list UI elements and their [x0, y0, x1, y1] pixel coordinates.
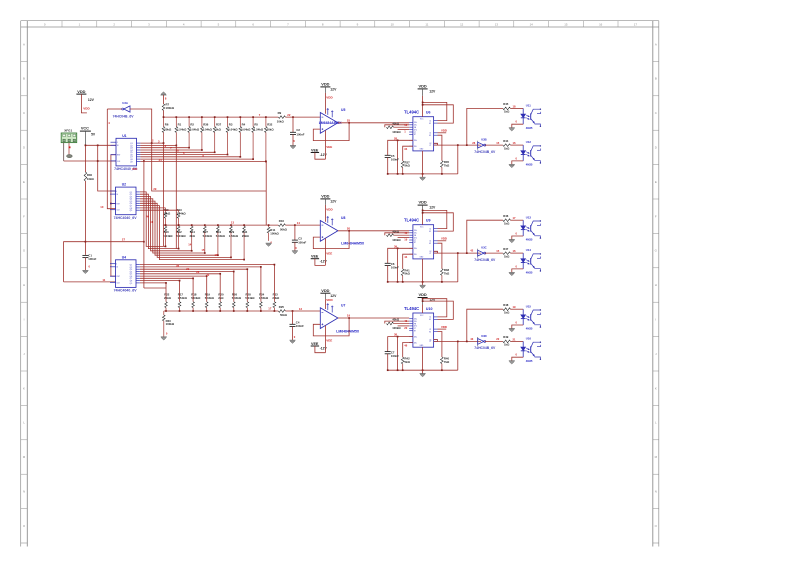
- resistor R37 2kΩ: [213, 117, 221, 152]
- wire long link R6 column: [163, 143, 165, 246]
- svg-text:4N35: 4N35: [526, 126, 533, 130]
- wire VDD stem: [81, 94, 87, 113]
- svg-text:RT: RT: [414, 331, 416, 333]
- svg-text:40: 40: [146, 215, 149, 219]
- wire U4 Q7 to ladder: [140, 278, 193, 301]
- svg-text:RST: RST: [117, 204, 120, 206]
- svg-text:25: 25: [347, 118, 351, 122]
- svg-text:R49: R49: [503, 335, 509, 339]
- ground under R23: [161, 336, 167, 338]
- wire long link column (net 27 riser): [143, 161, 145, 288]
- wire output to rail loop: [457, 145, 459, 174]
- svg-text:E1: E1: [429, 231, 431, 233]
- svg-text:46: 46: [404, 343, 407, 347]
- svg-text:5kΩ: 5kΩ: [405, 164, 411, 168]
- svg-text:28: 28: [394, 136, 397, 140]
- wire bottom rail: [388, 173, 458, 175]
- svg-text:10: 10: [100, 205, 104, 209]
- resistor R47 1k: [503, 247, 511, 258]
- wire LED cathode to ground: [512, 357, 523, 361]
- svg-text:1IN+: 1IN+: [414, 122, 417, 124]
- sheet border frame: [21, 21, 659, 547]
- wire output pins tie: [434, 143, 438, 145]
- op-amp U7 LM6484: [320, 303, 345, 328]
- svg-text:10kΩ: 10kΩ: [277, 119, 285, 123]
- svg-text:VDD: VDD: [83, 106, 90, 110]
- svg-text:D: D: [23, 146, 25, 150]
- svg-text:11: 11: [102, 278, 105, 282]
- capacitor C7 100nF timing: [385, 351, 391, 353]
- svg-text:2IN+: 2IN+: [414, 248, 417, 250]
- svg-text:7kΩ: 7kΩ: [444, 360, 450, 364]
- ground symbol: [420, 373, 426, 375]
- inverter U3B 74HC04: [474, 138, 496, 154]
- ground for U16 LED: [509, 360, 515, 362]
- svg-text:18: 18: [513, 104, 516, 108]
- resistor R37 5k timing: [401, 161, 404, 168]
- svg-text:K: K: [655, 386, 657, 390]
- op-amp U5 LM6484: [320, 108, 345, 133]
- svg-text:VDD: VDD: [321, 194, 329, 199]
- svg-text:U3B: U3B: [481, 138, 487, 142]
- svg-text:TL494C: TL494C: [404, 306, 419, 311]
- svg-text:U1: U1: [122, 134, 126, 138]
- svg-text:74HC04B_6V: 74HC04B_6V: [474, 258, 496, 262]
- wire U4 Q9 to ladder: [140, 283, 166, 301]
- svg-text:RST: RST: [117, 155, 120, 157]
- wire RT pin: [403, 343, 413, 358]
- svg-text:10kΩ: 10kΩ: [87, 177, 95, 181]
- svg-text:XFG1: XFG1: [64, 129, 72, 133]
- wire link down to row2 (net 29): [152, 143, 267, 191]
- svg-text:5.04kΩ: 5.04kΩ: [163, 234, 173, 238]
- svg-text:100kΩ: 100kΩ: [392, 130, 401, 134]
- ground under C4: [290, 339, 296, 341]
- LED of optocoupler U15: [521, 309, 526, 325]
- svg-text:N: N: [655, 490, 657, 494]
- svg-text:R5: R5: [254, 123, 258, 127]
- resistor R33 20kΩ (row 3): [272, 292, 280, 311]
- resistor R10 5.04kΩ: [163, 225, 173, 246]
- wire net 27 cross link: [64, 242, 86, 282]
- wire U1 Q3 to ladder: [140, 147, 189, 149]
- svg-text:VDD: VDD: [321, 82, 329, 87]
- svg-text:100nF: 100nF: [88, 257, 96, 261]
- svg-text:VDD: VDD: [418, 200, 426, 205]
- svg-text:B: B: [23, 77, 25, 81]
- svg-text:5.04kΩ: 5.04kΩ: [216, 234, 226, 238]
- wire U4 Q5 to ladder: [140, 274, 220, 301]
- svg-text:N: N: [23, 490, 25, 494]
- resistor R31 5.04kΩ: [216, 225, 226, 255]
- svg-text:4: 4: [116, 264, 117, 266]
- resistor 40k feedback: [387, 234, 394, 237]
- svg-text:2IN-: 2IN-: [414, 146, 417, 148]
- wire VDD stem: [324, 199, 326, 205]
- wire U1 Q1 to ladder: [140, 142, 163, 144]
- svg-text:VDD: VDD: [418, 292, 426, 297]
- svg-text:LM6484AIM5X: LM6484AIM5X: [341, 241, 365, 245]
- wire DAC bus row 3 (net 17): [164, 310, 279, 312]
- svg-text:17: 17: [634, 22, 638, 26]
- svg-text:1IN-: 1IN-: [414, 233, 417, 235]
- wire VDD to E1 pin loop: [423, 213, 454, 231]
- wire U4 Q8 to ladder: [140, 281, 180, 301]
- svg-text:24: 24: [159, 158, 162, 162]
- wire feedback loop: [313, 318, 349, 336]
- svg-text:U14: U14: [526, 248, 532, 252]
- resistor R22 20kΩ (row 3): [164, 292, 172, 311]
- svg-text:CT: CT: [414, 240, 416, 242]
- wire output net: [438, 340, 481, 342]
- svg-text:27: 27: [122, 238, 126, 242]
- resistor R26 5.04kΩ (row 3): [232, 292, 242, 311]
- resistor R15 20kΩ (row 2 upper): [163, 208, 171, 225]
- svg-text:1kΩ: 1kΩ: [504, 221, 510, 225]
- svg-text:VEE: VEE: [326, 251, 332, 255]
- svg-text:29: 29: [186, 267, 189, 271]
- svg-text:H: H: [655, 283, 657, 287]
- svg-text:U15: U15: [526, 304, 532, 308]
- svg-text:100nF: 100nF: [296, 132, 304, 136]
- wire riser through R32 column to bus2: [265, 161, 267, 225]
- LED of optocoupler U11: [521, 108, 526, 124]
- svg-text:100kΩ: 100kΩ: [166, 106, 175, 110]
- svg-text:74HC4040_6V: 74HC4040_6V: [114, 289, 138, 293]
- wire U2 Q2 to ladder: [140, 194, 179, 248]
- svg-text:U16: U16: [526, 337, 532, 341]
- svg-text:1.54kΩ: 1.54kΩ: [178, 296, 188, 300]
- svg-text:100kΩ: 100kΩ: [392, 326, 401, 330]
- svg-text:E1: E1: [429, 319, 431, 321]
- svg-text:20kΩ: 20kΩ: [242, 234, 250, 238]
- wire CT pin to timing network: [388, 140, 413, 155]
- wire to LED: [510, 252, 523, 254]
- svg-text:20kΩ: 20kΩ: [164, 127, 172, 131]
- svg-text:12V: 12V: [330, 200, 337, 204]
- svg-text:U12: U12: [526, 140, 532, 144]
- svg-text:CT: CT: [414, 328, 416, 330]
- svg-text:1kΩ: 1kΩ: [504, 110, 510, 114]
- svg-text:A: A: [23, 42, 25, 46]
- wire shared reset rail: [111, 155, 116, 277]
- svg-text:22: 22: [496, 337, 499, 341]
- svg-text:7kΩ: 7kΩ: [444, 272, 450, 276]
- svg-text:1.54kΩ: 1.54kΩ: [176, 211, 186, 215]
- svg-text:B: B: [655, 77, 657, 81]
- svg-text:38: 38: [394, 333, 397, 337]
- svg-text:C2: C2: [429, 329, 431, 331]
- wire GND pin to rail: [422, 259, 424, 285]
- LED of optocoupler U13: [521, 220, 526, 236]
- svg-text:R9: R9: [278, 111, 282, 115]
- svg-text:C: C: [655, 111, 657, 115]
- wire feedback loop: [313, 231, 349, 249]
- resistor R12 5.04kΩ: [176, 225, 186, 249]
- svg-text:12V: 12V: [429, 206, 436, 210]
- wire VDD to C1 pin loop: [423, 102, 447, 120]
- svg-text:4: 4: [116, 191, 117, 193]
- wire GND pin to rail: [422, 151, 424, 177]
- wire U2 Q4 to ladder: [140, 199, 205, 253]
- ground under R11: [266, 242, 272, 244]
- resistor R1 1.54kΩ: [175, 117, 187, 145]
- PWM controller U6 TL494C: [404, 110, 438, 151]
- svg-text:VEE: VEE: [311, 149, 319, 153]
- wire U1 Q7 to ladder: [140, 156, 240, 158]
- svg-text:-12V: -12V: [320, 259, 328, 263]
- resistor R32 20kΩ: [265, 117, 275, 161]
- wire U2 Q7 to ladder: [140, 206, 244, 260]
- svg-text:FB: FB: [414, 235, 416, 237]
- wire U1 Q2 to ladder: [140, 144, 176, 146]
- svg-text:R16: R16: [279, 219, 285, 223]
- svg-text:1IN+: 1IN+: [414, 230, 417, 232]
- svg-text:U3A: U3A: [122, 101, 128, 105]
- phototransistor of U13 4N35: [526, 215, 541, 241]
- wire U4 Q6 to ladder: [140, 276, 207, 301]
- wire VDD stem: [422, 298, 424, 305]
- svg-text:16: 16: [117, 145, 119, 147]
- svg-text:44: 44: [404, 255, 407, 259]
- svg-text:15: 15: [564, 22, 568, 26]
- svg-text:2IN+: 2IN+: [414, 140, 417, 142]
- svg-text:FB: FB: [414, 127, 416, 129]
- capacitor C4 100nF: [292, 311, 294, 324]
- wire U1 Q9 to ladder: [140, 160, 266, 162]
- wire U1 Q4 to ladder: [140, 149, 202, 151]
- wire GND pin to rail: [422, 347, 424, 373]
- resistor R19 5.04kΩ (row 3): [205, 292, 215, 311]
- svg-text:VDD: VDD: [132, 167, 138, 171]
- svg-text:4N35: 4N35: [526, 359, 533, 363]
- svg-text:R45: R45: [503, 102, 509, 106]
- svg-text:VEE: VEE: [311, 255, 319, 259]
- svg-text:40kΩ: 40kΩ: [392, 229, 400, 233]
- power VCC 5V symbol: [80, 127, 96, 137]
- wire RT pin: [403, 254, 413, 269]
- wire VDD stem: [324, 293, 326, 299]
- capacitor C6 100nF timing: [385, 262, 391, 264]
- svg-text:100nF: 100nF: [296, 324, 304, 328]
- resistor R13 1.54kΩ (row 2 upper): [176, 208, 186, 225]
- wire LED cathode to ground: [512, 236, 523, 240]
- resistor R35 7k: [438, 135, 442, 161]
- svg-text:Q9: Q9: [130, 283, 133, 285]
- power VDD 12V supply symbol (top left): [76, 89, 94, 111]
- svg-text:1kΩ: 1kΩ: [504, 310, 510, 314]
- wire to U2 reset: [111, 203, 116, 205]
- svg-text:16: 16: [116, 267, 118, 269]
- wire U2 Q1 to ladder: [140, 192, 166, 247]
- wire feedback loop: [313, 123, 349, 141]
- resistor R4 5.04kΩ: [239, 117, 251, 157]
- capacitor C3 100nF: [294, 225, 296, 240]
- wire VCC branch to U2: [98, 145, 116, 191]
- svg-text:E2: E2: [429, 243, 431, 245]
- wire to LED: [510, 107, 523, 109]
- phototransistor of U16 4N35: [526, 337, 541, 363]
- svg-text:E: E: [23, 180, 25, 184]
- svg-text:5kΩ: 5kΩ: [405, 360, 411, 364]
- ground (analog blob) for XFG1: [67, 155, 73, 158]
- wire VDD stem: [324, 87, 326, 93]
- wire U1 Q6 to ladder: [140, 154, 227, 156]
- svg-text:R25: R25: [279, 305, 285, 309]
- svg-text:C2: C2: [429, 133, 431, 135]
- svg-text:VDD: VDD: [326, 95, 333, 99]
- resistor 40k feedback: [387, 322, 394, 325]
- svg-text:15: 15: [201, 248, 204, 252]
- wire bottom rail: [388, 369, 458, 371]
- svg-text:5kΩ: 5kΩ: [405, 272, 411, 276]
- svg-text:H: H: [23, 283, 25, 287]
- inverter U3A 74HC04 (points left): [113, 101, 135, 118]
- svg-text:VDD: VDD: [326, 207, 333, 211]
- counter U2 74HC4040: [110, 183, 140, 215]
- svg-text:U8: U8: [341, 216, 345, 220]
- svg-text:VDD: VDD: [321, 288, 329, 293]
- svg-text:U3C: U3C: [481, 246, 487, 250]
- svg-text:1kΩ: 1kΩ: [504, 254, 510, 258]
- wire DAC bus row 1 (net 7): [164, 116, 279, 118]
- wire U3A output to U2 clock: [107, 109, 116, 209]
- wire feedback resistor network: [385, 321, 409, 323]
- wire U2 Q3 to ladder: [140, 197, 192, 251]
- wire U3A input from U1 Q1 (net 2): [130, 109, 152, 143]
- svg-text:C1: C1: [429, 120, 431, 122]
- svg-text:5.04kΩ: 5.04kΩ: [245, 296, 255, 300]
- svg-text:16: 16: [513, 249, 516, 253]
- wire VEE stem: [324, 130, 326, 159]
- resistor R16 50k series (row 2 output): [278, 219, 287, 231]
- phototransistor of U15 4N35: [526, 304, 541, 330]
- svg-text:29: 29: [153, 187, 156, 191]
- svg-text:5.04kΩ: 5.04kΩ: [241, 127, 251, 131]
- resistor R2 5.04kΩ: [188, 117, 200, 148]
- wire DTC network: [398, 237, 410, 239]
- svg-text:VEE: VEE: [326, 145, 332, 149]
- svg-text:RT: RT: [414, 242, 416, 244]
- svg-text:100nF: 100nF: [391, 266, 399, 270]
- inverter U3C 74HC04: [474, 246, 496, 262]
- capacitor C5 100nF timing: [385, 154, 391, 156]
- svg-text:5.04kΩ: 5.04kΩ: [191, 296, 201, 300]
- wire VDD to C1 pin loop: [423, 299, 447, 317]
- svg-text:R44: R44: [503, 139, 509, 143]
- wire VDD stem: [422, 205, 424, 212]
- resistor R38 7k: [438, 243, 442, 269]
- wire output to rail loop: [457, 341, 459, 370]
- wire inverter to R49: [485, 340, 503, 342]
- svg-text:R32: R32: [267, 123, 273, 127]
- wire DTC network: [398, 129, 410, 131]
- node VDD label right: [438, 240, 447, 242]
- svg-text:4: 4: [117, 142, 118, 144]
- resistor R29 1.54kΩ: [229, 225, 239, 257]
- svg-text:TL494C: TL494C: [404, 110, 419, 115]
- power VDD symbol above U5: [320, 82, 337, 100]
- svg-text:U6: U6: [426, 111, 431, 115]
- wire link at 288: [144, 287, 166, 289]
- svg-text:U10: U10: [426, 307, 433, 311]
- svg-text:VDD: VDD: [326, 298, 333, 302]
- wire VDD to E1 pin loop: [423, 105, 454, 123]
- wire LED cathode to ground: [512, 161, 523, 165]
- wire output to rail loop: [457, 253, 459, 282]
- svg-text:42: 42: [470, 249, 473, 253]
- wire U4 Q1 to ladder: [140, 265, 274, 301]
- resistor R23 100k to ground (row 3): [162, 311, 174, 337]
- svg-text:4N35: 4N35: [526, 163, 533, 167]
- wire output net: [438, 144, 481, 146]
- svg-text:20kΩ: 20kΩ: [164, 296, 172, 300]
- svg-text:17: 17: [268, 307, 272, 311]
- svg-text:15: 15: [496, 249, 499, 253]
- svg-text:R36: R36: [203, 123, 209, 127]
- wire U2 Q6 to ladder: [140, 203, 231, 257]
- power VEE symbol below U8: [311, 251, 333, 263]
- LED of optocoupler U12: [521, 145, 526, 161]
- wire DTC network: [398, 325, 410, 327]
- svg-text:1IN-: 1IN-: [414, 321, 417, 323]
- svg-text:39: 39: [394, 244, 397, 248]
- svg-text:5.04kΩ: 5.04kΩ: [203, 127, 213, 131]
- power VEE symbol below U7: [311, 339, 333, 351]
- wire output net: [438, 252, 481, 254]
- svg-text:VDD: VDD: [441, 129, 447, 133]
- wire op-amp output: [338, 122, 409, 124]
- capacitor C2 100nF: [292, 117, 294, 132]
- wire RT pin: [403, 146, 413, 161]
- svg-text:R48: R48: [503, 303, 509, 307]
- PWM controller U9 TL494C: [404, 218, 438, 259]
- svg-text:F: F: [23, 214, 25, 218]
- svg-text:5.04kΩ: 5.04kΩ: [232, 296, 242, 300]
- resistor 40k feedback: [387, 126, 394, 129]
- resistor R46 1k: [503, 214, 511, 225]
- svg-text:-12V: -12V: [320, 153, 328, 157]
- wire inverter to R47: [485, 252, 503, 254]
- resistor R48 1k: [503, 303, 511, 314]
- svg-text:5.04kΩ: 5.04kΩ: [203, 234, 213, 238]
- svg-text:2kΩ: 2kΩ: [218, 296, 224, 300]
- resistor R34 20kΩ: [242, 225, 250, 260]
- resistor R11 100k to ground (row 2): [267, 225, 279, 241]
- svg-text:13: 13: [495, 22, 499, 26]
- wire XFG1 common to ground: [68, 143, 70, 155]
- resistor R3 5.04kΩ: [226, 117, 238, 154]
- svg-text:45: 45: [404, 319, 407, 323]
- resistor R17 1.54kΩ (row 3): [178, 292, 188, 311]
- svg-text:20kΩ: 20kΩ: [272, 296, 280, 300]
- ground for U11 LED: [509, 127, 515, 129]
- svg-text:14: 14: [530, 22, 534, 26]
- svg-text:C: C: [23, 111, 25, 115]
- svg-text:R37: R37: [216, 123, 222, 127]
- wire to LED: [510, 219, 523, 221]
- wire feedback resistor network: [385, 233, 409, 235]
- svg-text:11: 11: [425, 22, 428, 26]
- ground symbol: [420, 176, 426, 178]
- wire long link R1 column: [175, 145, 177, 248]
- ground for U12 LED: [509, 164, 515, 166]
- svg-text:34: 34: [404, 147, 407, 151]
- svg-text:16: 16: [116, 194, 118, 196]
- wire direct path up (channel 1): [466, 144, 468, 146]
- svg-text:16: 16: [599, 22, 603, 26]
- ground under C1: [82, 269, 88, 271]
